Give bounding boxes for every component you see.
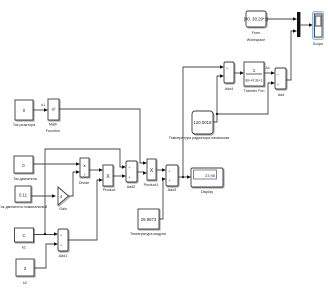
svg-text:Add4: Add4 (225, 87, 234, 91)
mux block (black bar) (297, 12, 300, 37)
wire k2 to Add1 lower input (34, 242, 58, 268)
wire Add output up to Mux lower input (286, 29, 297, 80)
svg-text:+: + (129, 176, 131, 180)
svg-text:8s²+0.3s+1: 8s²+0.3s+1 (246, 79, 263, 83)
product block Product (103, 165, 116, 192)
svg-text:u1: u1 (41, 103, 45, 107)
svg-text:+: + (226, 67, 228, 71)
svg-text:+: + (129, 166, 131, 170)
wire Add4 to Transfer Fcn (234, 71, 244, 75)
svg-text:120.0018: 120.0018 (194, 120, 213, 125)
svg-text:Δx: Δx (266, 66, 270, 70)
svg-text:Температура радиатора начальна: Температура радиатора начальная (169, 136, 230, 140)
wire Температура модуля to Add3 lower input (159, 177, 166, 219)
svg-text:Product1: Product1 (144, 183, 159, 187)
sum block Add3 (166, 165, 179, 192)
wire Ток двигателя to Divide upper input (33, 162, 80, 166)
wire 0.11 to Gain (31, 194, 56, 198)
sum block Add2 (126, 161, 138, 189)
wire Divide to Product upper input (89, 168, 103, 172)
svg-text:+: + (277, 73, 279, 77)
svg-text:Температура модуля: Температура модуля (130, 232, 166, 236)
svg-text:+: + (60, 244, 62, 248)
svg-text:Math: Math (49, 123, 57, 127)
svg-text:C: C (22, 233, 25, 238)
svg-text:23.98: 23.98 (205, 173, 216, 178)
sum block Add1 (58, 229, 69, 258)
svg-text:Transfer Fcn: Transfer Fcn (244, 89, 265, 93)
wire Gain to Divide lower input (69, 170, 81, 196)
svg-text:+: + (60, 234, 62, 238)
svg-text:Add3: Add3 (168, 188, 177, 192)
sum block Add (275, 68, 287, 97)
from workspace block From Workspace (244, 11, 268, 42)
svg-text:Add: Add (278, 93, 285, 97)
svg-text:Ток реактора: Ток реактора (13, 123, 36, 127)
svg-text:From: From (252, 31, 261, 35)
constant block k1 (-C-) (15, 228, 35, 250)
svg-text:u²: u² (52, 107, 56, 112)
svg-text:Divide: Divide (79, 181, 89, 185)
sum block Add4 (224, 62, 235, 91)
constant block Температура радиатора начальная (120.0018) (169, 111, 230, 140)
gain block Gain (triangle) (58, 187, 70, 211)
wire Add2 to Product1 lower input (137, 171, 147, 175)
scope block Scope (selected, blue highlight) (313, 12, 324, 47)
constant block Температура модуля (29.9873) (130, 209, 166, 236)
svg-text:0.11: 0.11 (19, 193, 28, 198)
Math Function block u^2 (46, 99, 60, 133)
display block Display (23.98) (191, 168, 224, 194)
svg-text:+: + (277, 83, 279, 87)
constant block Ток двигателя (value 0) (13, 156, 37, 181)
wire k1 to Add1 upper input with junction branch up to Add2 upper input (34, 149, 127, 236)
svg-text:Ток двигателя: Ток двигателя (13, 177, 37, 181)
svg-text:Function: Function (46, 129, 60, 133)
svg-text:Workspace: Workspace (247, 38, 265, 42)
svg-text:Ток двигателя номинальный: Ток двигателя номинальный (0, 205, 47, 209)
svg-text:Scope: Scope (313, 42, 323, 46)
wire Product1 to Add3 upper input (156, 168, 166, 172)
svg-text:Product: Product (103, 188, 116, 192)
svg-text:+: + (169, 170, 171, 174)
wire Product to Add2 lower input (113, 174, 126, 178)
svg-text:+: + (169, 179, 171, 183)
constant block Ток двигателя номинальный (value 0.11) (0, 186, 47, 209)
wire Add3 output to Display and branch up to Add4 (junction) (178, 65, 224, 179)
divide block Divide (79, 158, 90, 185)
svg-text:Display: Display (201, 190, 213, 194)
svg-text:[00, 30.29*1]: [00, 30.29*1] (244, 17, 268, 22)
svg-text:k1: k1 (22, 246, 26, 250)
wire 120.0018 up to Add4 lower input (junction) and right to Add lower input (213, 74, 275, 122)
svg-text:29.9873: 29.9873 (141, 217, 157, 222)
svg-text:Gain: Gain (59, 207, 67, 211)
wire Transfer Fcn to Add upper input with label dx (264, 66, 275, 75)
svg-text:Add1: Add1 (59, 254, 68, 258)
wire const to Math Function with label u1 (33, 103, 48, 112)
wire Add1 output up to Product lower input (68, 178, 103, 240)
product block Product1 (144, 159, 159, 187)
svg-text:k2: k2 (23, 281, 27, 285)
svg-text:Add2: Add2 (127, 185, 136, 189)
wire Math Function to Product1 upper input (59, 109, 147, 165)
constant block Ток реактора (value 0) (13, 100, 36, 127)
wire Mux to Scope (300, 23, 313, 27)
transfer function block Transfer Fcn (244, 62, 265, 93)
constant block k2 (3) (16, 259, 35, 285)
wire From Workspace to Mux upper input (266, 17, 297, 21)
